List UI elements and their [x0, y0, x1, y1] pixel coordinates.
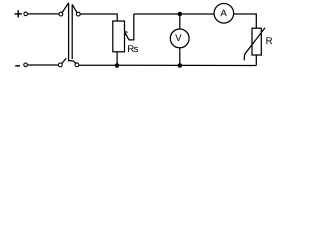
- switch S1 bottom right contact: [75, 63, 79, 67]
- switch S1 bottom blade right segment: [73, 61, 76, 64]
- label R: [266, 37, 272, 44]
- switch S1 top right contact: [76, 12, 80, 16]
- thermistor R body: [252, 28, 261, 55]
- terminal T1 circle (+): [24, 12, 28, 16]
- switch S1 top blade left segment: [62, 3, 69, 13]
- minus terminal sign: [15, 65, 20, 67]
- switch S1 bottom blade left segment: [62, 58, 66, 64]
- switch S1 top left contact: [59, 12, 63, 16]
- voltmeter V circle: [170, 29, 189, 48]
- junction dot V-bottom: [178, 63, 183, 68]
- wire T1 to switch: [28, 13, 59, 15]
- terminal T2 circle (-): [24, 63, 28, 67]
- junction dot V-top: [178, 12, 183, 17]
- plus terminal sign: [14, 10, 22, 17]
- bottom rail right segment: [79, 64, 257, 66]
- voltmeter V letter: [175, 34, 181, 41]
- resistor Rs body: [113, 21, 125, 52]
- wire T2 to switch: [28, 64, 59, 66]
- rheostat wiper arrowhead: [124, 32, 127, 36]
- wire switch to Rs corner: [80, 14, 117, 21]
- switch linkage bar 2: [71, 4, 73, 59]
- wire A to R corner: [233, 14, 256, 28]
- switch S1 bottom left contact: [58, 63, 62, 67]
- switch S1 top blade right segment: [72, 4, 77, 12]
- ammeter A circle: [214, 4, 234, 24]
- switch linkage bar 1 with bottom foot: [69, 3, 73, 61]
- label Rs: [128, 45, 138, 52]
- thermistor R bottom lead: [255, 55, 257, 66]
- wire wiper to A meter: [134, 13, 215, 15]
- voltmeter V bottom lead: [179, 48, 181, 66]
- rheostat wiper arm: [125, 14, 134, 40]
- junction dot Rs-bottom: [115, 63, 120, 68]
- thermistor R bent line: [244, 28, 265, 61]
- ammeter A letter: [220, 10, 226, 17]
- resistor Rs bottom lead: [116, 52, 118, 66]
- voltmeter V top lead: [179, 14, 181, 29]
